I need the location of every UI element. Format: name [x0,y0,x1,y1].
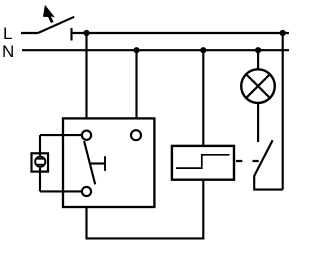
svg-text:L: L [3,24,12,43]
svg-text:N: N [2,42,14,61]
